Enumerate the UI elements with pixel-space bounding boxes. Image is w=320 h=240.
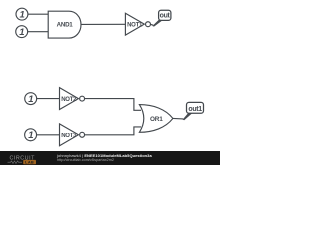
wire AND1 output to NOT1 input [81, 23, 125, 25]
NOT gate NOT1 [125, 13, 150, 35]
wire input1 to AND1 top input [28, 13, 48, 15]
input node 4 (logic one) [25, 129, 37, 141]
wire input3 to NOT2 [37, 98, 60, 100]
wire input2 to AND1 bottom input [28, 31, 49, 33]
output flag out (pointer tail) [152, 20, 162, 27]
NOT gate NOT3 [60, 124, 85, 146]
output flag out1 (box) [187, 102, 204, 113]
svg-text:1: 1 [28, 94, 33, 105]
wire NOT1 bubble to out node [150, 23, 153, 26]
OR gate OR1 [139, 105, 173, 133]
footer bar [0, 151, 220, 165]
wire NOT2 output to OR1 top input (jog) [85, 99, 141, 111]
svg-text:1: 1 [19, 27, 24, 38]
output flag out (box) [159, 10, 171, 20]
input node 3 (logic one) [25, 93, 37, 105]
svg-text:http:⁄⁄circuitlab.com⁄c⁄6spart: http:⁄⁄circuitlab.com⁄c⁄6spartax2m2 [57, 158, 114, 162]
svg-text:NOT2: NOT2 [61, 97, 77, 103]
input node 1 (logic one, top) [16, 8, 28, 20]
wire input4 to NOT3 [37, 134, 60, 136]
svg-text:AND1: AND1 [57, 22, 74, 29]
svg-text:out1: out1 [188, 106, 202, 113]
wire OR1 output to out1 node [173, 117, 183, 119]
CircuitLab logo: resistor squiggle [8, 161, 23, 164]
svg-text:OR1: OR1 [150, 116, 163, 123]
input node 2 (logic one, second) [16, 26, 28, 38]
output flag out1 (pointer tail) [183, 113, 193, 120]
svg-text:1: 1 [20, 10, 25, 21]
wire NOT3 output to OR1 bottom input (jog) [85, 127, 141, 135]
svg-text:NOT3: NOT3 [61, 133, 77, 139]
CircuitLab logo: LAB orange badge [23, 160, 36, 164]
svg-text:out: out [160, 13, 171, 20]
svg-text:LAB: LAB [25, 160, 34, 165]
svg-text:1: 1 [28, 130, 33, 141]
svg-text:NOT1: NOT1 [127, 22, 143, 28]
NOT gate NOT2 [60, 88, 85, 110]
AND gate AND1 [48, 11, 81, 38]
